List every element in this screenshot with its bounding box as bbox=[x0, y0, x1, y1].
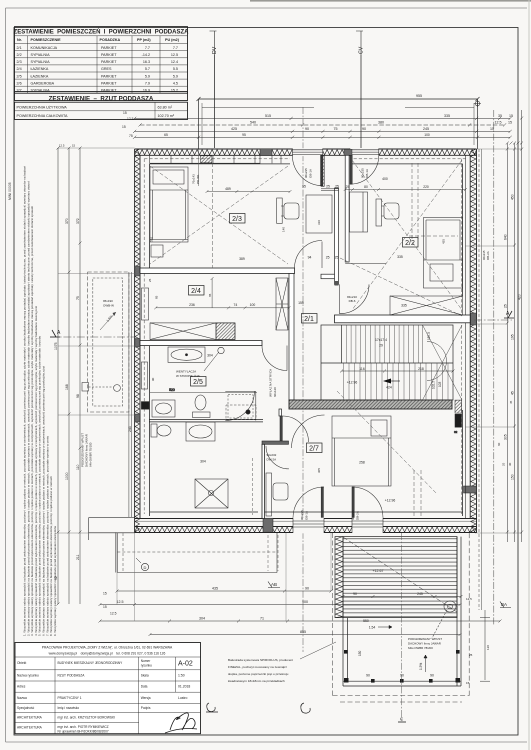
bathtub lower bath bbox=[186, 422, 215, 441]
svg-text:PARKIET: PARKIET bbox=[101, 46, 117, 50]
bottom dim line 3 bbox=[99, 620, 502, 623]
top dimension line 4 bbox=[133, 136, 512, 139]
svg-text:855: 855 bbox=[300, 630, 306, 634]
bottom exterior wall bbox=[135, 519, 477, 533]
svg-text:102.5: 102.5 bbox=[432, 381, 436, 389]
svg-text:150: 150 bbox=[358, 650, 362, 656]
svg-text:Specjalność: Specjalność bbox=[17, 706, 35, 710]
terrace drain label bbox=[408, 637, 442, 650]
svg-text:12.5: 12.5 bbox=[127, 117, 134, 121]
svg-text:95: 95 bbox=[242, 133, 246, 137]
svg-text:75: 75 bbox=[129, 134, 133, 138]
bath counter line bbox=[149, 419, 263, 422]
drain label vertical bbox=[81, 433, 93, 467]
svg-text:45: 45 bbox=[511, 391, 515, 395]
svg-text:2/7: 2/7 bbox=[309, 446, 319, 453]
dim 955 bbox=[197, 94, 480, 101]
wardrobe in niche bbox=[306, 195, 332, 233]
stair dimension line bbox=[340, 370, 455, 373]
bathtub room 2/5 bbox=[168, 347, 205, 362]
right dimension lines bbox=[506, 110, 523, 542]
svg-text:372: 372 bbox=[76, 218, 80, 224]
svg-text:OB-2A: OB-2A bbox=[486, 251, 490, 260]
svg-text:640: 640 bbox=[503, 234, 507, 240]
svg-text:GRES: GRES bbox=[101, 67, 112, 71]
shaft wall right (corridor wall) bbox=[321, 188, 339, 286]
svg-text:DV: DV bbox=[212, 46, 218, 54]
extension lines right bbox=[465, 149, 522, 533]
stair direction arrow bbox=[383, 379, 391, 384]
svg-text:450: 450 bbox=[511, 194, 515, 200]
svg-text:Data: Data bbox=[141, 685, 148, 689]
tick cluster top right wall bbox=[506, 142, 523, 145]
terrace door 2 swing bbox=[352, 487, 383, 518]
svg-text:GARDEROBA: GARDEROBA bbox=[31, 81, 55, 85]
threshold line room 2/2 entry bbox=[345, 263, 386, 265]
svg-text:2/6: 2/6 bbox=[17, 81, 22, 85]
svg-text:245: 245 bbox=[423, 127, 429, 131]
dim ticks right of terrace bbox=[480, 610, 490, 681]
svg-text:2/4: 2/4 bbox=[17, 67, 22, 71]
svg-text:15: 15 bbox=[508, 121, 512, 125]
door corridor to stair hall bbox=[340, 284, 370, 313]
CV gutter marker bbox=[356, 31, 365, 148]
terrace door opening 2 (bottom) bbox=[352, 518, 383, 534]
svg-text:90: 90 bbox=[305, 127, 309, 131]
svg-text:29: 29 bbox=[379, 344, 383, 348]
svg-text:489: 489 bbox=[225, 187, 231, 191]
svg-text:7.9: 7.9 bbox=[145, 81, 150, 85]
svg-text:304: 304 bbox=[199, 617, 205, 621]
section line A-A stubs bbox=[50, 320, 512, 337]
svg-text:425: 425 bbox=[442, 239, 446, 244]
svg-text:15: 15 bbox=[72, 144, 76, 148]
section marker A left bbox=[50, 330, 61, 337]
svg-text:17x17.4: 17x17.4 bbox=[375, 338, 387, 342]
washbasin room 2/5 bbox=[152, 400, 175, 417]
svg-text:94: 94 bbox=[308, 256, 312, 260]
svg-text:64H-OWBR 78/200: 64H-OWBR 78/200 bbox=[408, 646, 433, 650]
left dim texts rotated bbox=[54, 218, 132, 580]
svg-text:71: 71 bbox=[260, 617, 264, 621]
right wall inner finish line bbox=[465, 155, 467, 518]
svg-text:5.7: 5.7 bbox=[145, 67, 150, 71]
section marker A right bbox=[504, 311, 514, 318]
svg-text:12.5: 12.5 bbox=[495, 121, 502, 125]
svg-text:PARKIET: PARKIET bbox=[101, 74, 117, 78]
svg-text:15: 15 bbox=[103, 592, 107, 596]
terrace door opening 1 (bottom) bbox=[293, 518, 324, 534]
svg-text:140: 140 bbox=[282, 227, 286, 232]
stair hall / room 2/7 wall (H3) bbox=[289, 400, 452, 409]
garage roof rectangle bottom-left bbox=[117, 533, 277, 573]
svg-text:550: 550 bbox=[363, 619, 369, 623]
section line through plan (vertical) bbox=[302, 107, 304, 652]
knee-wall dashed inner offsets bbox=[144, 159, 466, 514]
svg-text:2/3: 2/3 bbox=[232, 216, 242, 223]
svg-text:335: 335 bbox=[397, 255, 403, 259]
terrace drain bbox=[432, 601, 456, 638]
svg-text:Balustrada systemowa SPIROFLUS: Balustrada systemowa SPIROFLUS, producen… bbox=[228, 658, 293, 662]
svg-text:12.5: 12.5 bbox=[466, 597, 472, 601]
svg-text:15: 15 bbox=[466, 681, 470, 685]
svg-text:Adres: Adres bbox=[17, 685, 26, 689]
svg-text:900: 900 bbox=[302, 600, 308, 604]
svg-text:Obiekt: Obiekt bbox=[17, 661, 26, 665]
svg-text:12.5: 12.5 bbox=[59, 144, 65, 148]
svg-text:304: 304 bbox=[200, 460, 206, 464]
svg-text:www.domyzwizja.pl domy@domy: www.domyzwizja.pl domy@domyzwizja.pl tel… bbox=[49, 652, 166, 656]
left exterior wall bbox=[135, 149, 140, 533]
scan edge artifact top bbox=[250, 0, 531, 2]
title block grid bbox=[15, 657, 201, 734]
svg-text:25: 25 bbox=[326, 185, 330, 189]
table rows bbox=[17, 46, 179, 93]
svg-text:75: 75 bbox=[76, 296, 80, 300]
title values bbox=[58, 661, 124, 734]
svg-text:305: 305 bbox=[317, 468, 321, 473]
dark pier in bottom wall bbox=[263, 518, 273, 532]
svg-text:25: 25 bbox=[502, 462, 506, 466]
svg-text:100: 100 bbox=[250, 303, 256, 307]
terrace deck bbox=[343, 537, 457, 618]
svg-text:7.7: 7.7 bbox=[145, 46, 150, 50]
svg-text:4.5: 4.5 bbox=[173, 81, 178, 85]
svg-text:Nr.: Nr. bbox=[17, 38, 22, 42]
small left bottom texts bbox=[103, 592, 117, 616]
roof slope dashed diagonal 2/7 bbox=[337, 391, 437, 518]
svg-text:PARKIET: PARKIET bbox=[101, 53, 117, 57]
svg-text:85: 85 bbox=[155, 295, 159, 299]
svg-text:25: 25 bbox=[469, 653, 473, 657]
balcony door opening 2 (top) bbox=[350, 148, 379, 156]
svg-text:95: 95 bbox=[302, 185, 306, 189]
svg-text:90: 90 bbox=[430, 673, 434, 677]
svg-text:POMIESZCZENIE: POMIESZCZENIE bbox=[31, 38, 62, 42]
svg-text:95x190: 95x190 bbox=[103, 299, 113, 303]
svg-text:16.3: 16.3 bbox=[143, 60, 150, 64]
svg-text:Podpis: Podpis bbox=[141, 706, 151, 710]
bed room 2/7 bbox=[332, 416, 391, 486]
svg-text:120: 120 bbox=[486, 645, 490, 650]
svg-text:16.9: 16.9 bbox=[143, 89, 150, 93]
svg-text:80: 80 bbox=[364, 185, 368, 189]
balcony door 2 swing bbox=[350, 155, 379, 184]
svg-text:25: 25 bbox=[503, 304, 507, 308]
small marker glyph near block bbox=[206, 703, 218, 712]
shower tray low (X + drain) bbox=[195, 479, 228, 508]
svg-text:310: 310 bbox=[317, 220, 321, 225]
svg-text:+12.96: +12.96 bbox=[347, 380, 358, 384]
svg-text:2/2: 2/2 bbox=[17, 53, 22, 57]
svg-text:102.70 m²: 102.70 m² bbox=[158, 114, 175, 118]
wall above stairs (room 2/2 bottom wall) bbox=[335, 315, 471, 323]
roof drain left bbox=[82, 383, 120, 392]
dim 520 bbox=[150, 388, 257, 393]
svg-text:15: 15 bbox=[103, 605, 107, 609]
dashed drop lines below bottom wall bbox=[268, 535, 278, 571]
left dimension line 2 bbox=[68, 147, 71, 605]
svg-text:2/4: 2/4 bbox=[191, 288, 201, 295]
svg-text:335: 335 bbox=[444, 114, 450, 118]
svg-text:25: 25 bbox=[346, 185, 350, 189]
svg-text:2/3: 2/3 bbox=[17, 60, 22, 64]
svg-text:rysunku: rysunku bbox=[141, 664, 152, 668]
small dims right bbox=[482, 250, 513, 466]
svg-text:15: 15 bbox=[123, 111, 127, 115]
svg-text:DB-2A: DB-2A bbox=[355, 511, 359, 520]
svg-text:ŁAZIENKA: ŁAZIENKA bbox=[31, 74, 49, 78]
BA marker right bottom bbox=[500, 602, 511, 608]
room label 2/4 bbox=[189, 286, 205, 296]
door to room 2/5 bbox=[262, 346, 287, 371]
svg-text:2/5: 2/5 bbox=[17, 74, 22, 78]
balustrade note text bbox=[228, 658, 293, 683]
radiator left wall 2/4 bbox=[142, 288, 149, 320]
extension verticals down from plan bbox=[117, 533, 331, 621]
svg-text:PP (m2): PP (m2) bbox=[137, 38, 151, 42]
svg-text:110: 110 bbox=[76, 464, 80, 470]
svg-text:420: 420 bbox=[518, 294, 522, 300]
horizontal extension lines from plan to left dims bbox=[58, 148, 140, 533]
svg-text:540: 540 bbox=[250, 121, 256, 125]
balcony (roof terrace) outline above plan bbox=[199, 99, 478, 149]
room label 2/2 bbox=[403, 238, 419, 248]
svg-text:195: 195 bbox=[511, 334, 515, 340]
table inner grid bbox=[15, 36, 188, 120]
closet strip along top wall of room 2/3 bbox=[150, 155, 281, 163]
roof slope dashed diagonals 2/3 bbox=[150, 166, 288, 264]
svg-text:75: 75 bbox=[334, 127, 338, 131]
svg-text:90: 90 bbox=[366, 673, 370, 677]
svg-text:5.9: 5.9 bbox=[145, 74, 150, 78]
svg-text:CV: CV bbox=[359, 46, 365, 54]
railing posts bbox=[344, 650, 460, 683]
lower marker glyph bbox=[301, 703, 310, 713]
knee-wall solid lines (1m line) bbox=[150, 164, 463, 516]
svg-text:ARCHITEKTURA: ARCHITEKTURA bbox=[17, 726, 43, 730]
svg-text:74: 74 bbox=[234, 303, 238, 307]
svg-text:515: 515 bbox=[265, 114, 271, 118]
svg-text:OB-1A: OB-1A bbox=[308, 169, 312, 178]
svg-text:90: 90 bbox=[353, 592, 357, 596]
room label 2/1 bbox=[302, 314, 318, 324]
marked cabinet cell bbox=[201, 156, 212, 163]
svg-text:5.5: 5.5 bbox=[173, 67, 178, 71]
svg-text:W STROPIE ∅16: W STROPIE ∅16 bbox=[176, 374, 200, 378]
C section marker below terrace bbox=[398, 533, 406, 722]
svg-text:60x120: 60x120 bbox=[273, 387, 277, 397]
svg-text:65: 65 bbox=[164, 133, 168, 137]
lower roof bottom-left block bbox=[89, 518, 135, 573]
svg-text:32: 32 bbox=[454, 430, 458, 434]
bed room 2/3 bbox=[150, 167, 188, 242]
toilet lower bath bbox=[151, 424, 171, 437]
door corridor to bath zone bbox=[292, 415, 325, 448]
svg-text:12.5: 12.5 bbox=[110, 612, 117, 616]
chimney block room 2/7 bbox=[454, 400, 462, 434]
svg-text:PD-W1: PD-W1 bbox=[196, 174, 200, 184]
table frame bbox=[15, 27, 188, 120]
right exterior wall bbox=[470, 149, 476, 533]
scan edge artifact right bbox=[529, 0, 530, 750]
svg-text:PU (m2): PU (m2) bbox=[165, 38, 180, 42]
svg-text:65: 65 bbox=[208, 293, 212, 297]
svg-text:7.7: 7.7 bbox=[173, 46, 178, 50]
slope arrow vertical bbox=[419, 655, 427, 672]
svg-text:ZESTAWIENIE – RZUT PODDASZA: ZESTAWIENIE – RZUT PODDASZA bbox=[49, 95, 154, 102]
svg-text:Nazwa rysunku: Nazwa rysunku bbox=[17, 674, 39, 678]
svg-text:92: 92 bbox=[54, 576, 58, 580]
svg-text:mgr inż. arch. PIOTR RYMKIEWIC: mgr inż. arch. PIOTR RYMKIEWICZ bbox=[58, 725, 109, 729]
desk room 2/2 bbox=[376, 199, 399, 226]
DV gutter marker bbox=[210, 31, 219, 148]
svg-text:Skala: Skala bbox=[141, 674, 149, 678]
bath dividing wall (H2b) bbox=[140, 341, 262, 346]
balcony door 1 swing bbox=[292, 155, 322, 185]
svg-text:SYPIALNIA: SYPIALNIA bbox=[31, 53, 51, 57]
roof dash lines room 2/2 bbox=[409, 163, 458, 240]
svg-text:PRACOWNIA PROJEKTOWA „DOMY Z W: PRACOWNIA PROJEKTOWA „DOMY Z WIZJĄ”, ul.… bbox=[42, 646, 173, 650]
svg-text:MINI 00005: MINI 00005 bbox=[8, 182, 12, 200]
svg-text:POSADZKA: POSADZKA bbox=[100, 38, 121, 42]
svg-text:-14.2: -14.2 bbox=[142, 53, 150, 57]
svg-text:389: 389 bbox=[239, 257, 245, 261]
svg-text:435: 435 bbox=[212, 587, 218, 591]
svg-text:POWIERZCHNIA UŻYTKOWA: POWIERZCHNIA UŻYTKOWA bbox=[17, 104, 68, 109]
svg-text:+12.96: +12.96 bbox=[385, 499, 396, 503]
dark pier in top wall bbox=[260, 149, 272, 156]
svg-text:OB-1A: OB-1A bbox=[304, 511, 308, 520]
svg-text:Numer: Numer bbox=[141, 659, 152, 663]
svg-text:25: 25 bbox=[335, 185, 339, 189]
svg-text:OB-1A: OB-1A bbox=[365, 169, 369, 178]
attic hatch dashed rect bbox=[226, 405, 256, 420]
svg-text:100: 100 bbox=[424, 133, 430, 137]
svg-text:30: 30 bbox=[508, 462, 512, 466]
svg-text:400: 400 bbox=[382, 177, 388, 181]
D marker bbox=[136, 558, 149, 571]
bath / room 2/7 wall (W7 lower) bbox=[262, 444, 265, 518]
staircase outline bbox=[321, 325, 453, 400]
bed room 2/2 bbox=[424, 218, 463, 289]
svg-text:103: 103 bbox=[438, 381, 442, 387]
roof slope dashed diagonals 2/2 bbox=[352, 160, 462, 310]
nightstand room 2/3 bbox=[151, 245, 163, 257]
svg-text:424: 424 bbox=[386, 386, 392, 390]
svg-text:25: 25 bbox=[148, 278, 152, 282]
svg-text:45: 45 bbox=[509, 400, 513, 404]
svg-text:PARKIET: PARKIET bbox=[101, 89, 117, 93]
svg-text:25: 25 bbox=[335, 256, 339, 260]
svg-text:D: D bbox=[144, 565, 147, 570]
left dimension line 1 bbox=[57, 147, 60, 606]
roof overhang dashed outline around terrace bbox=[333, 533, 470, 702]
svg-text:Imię i nazwisko: Imię i nazwisko bbox=[58, 706, 80, 710]
long cabinet room 2/4 (X) bbox=[150, 323, 235, 340]
svg-text:218: 218 bbox=[418, 367, 424, 371]
svg-text:01.2018: 01.2018 bbox=[178, 685, 190, 689]
door in stub to bath bbox=[266, 446, 289, 469]
svg-text:ŁAZIENKA: ŁAZIENKA bbox=[31, 67, 49, 71]
svg-text:380: 380 bbox=[378, 121, 384, 125]
svg-text:BUDYNEK MIESZKALNY JEDNORODZIN: BUDYNEK MIESZKALNY JEDNORODZINNY bbox=[58, 661, 124, 665]
DV drain dashed continuation bbox=[212, 163, 214, 268]
svg-text:5.9: 5.9 bbox=[173, 74, 178, 78]
svg-text:12.5: 12.5 bbox=[117, 600, 124, 604]
svg-text:90: 90 bbox=[362, 127, 366, 131]
terrace right railing band bbox=[457, 537, 461, 686]
svg-text:305: 305 bbox=[503, 434, 507, 440]
svg-text:DW-2A: DW-2A bbox=[267, 458, 277, 462]
lower roof outline left bbox=[88, 272, 132, 517]
door bath to 2/7: leaf and swing bbox=[280, 416, 309, 442]
room label 2/3 bbox=[230, 214, 246, 224]
stair treads upper flight bbox=[346, 325, 462, 400]
svg-text:211: 211 bbox=[76, 554, 80, 560]
shower with curved front bbox=[225, 391, 256, 420]
svg-text:Wersja: Wersja bbox=[141, 696, 151, 700]
svg-text:90x232: 90x232 bbox=[267, 453, 277, 457]
stair labels bbox=[347, 338, 424, 390]
svg-text:12.4: 12.4 bbox=[171, 60, 178, 64]
svg-text:PRAKTYCZNY 1: PRAKTYCZNY 1 bbox=[58, 696, 82, 700]
svg-text:258: 258 bbox=[359, 461, 365, 465]
svg-text:1075: 1075 bbox=[54, 342, 58, 350]
right dim texts bbox=[503, 194, 521, 480]
svg-text:955: 955 bbox=[416, 94, 422, 98]
dark pier in right wall bbox=[464, 486, 477, 493]
right side terrace dims bbox=[466, 597, 490, 685]
svg-text:ARCHITEKTURA: ARCHITEKTURA bbox=[17, 716, 43, 720]
bath / room 2/7 wall upper stub bbox=[279, 409, 282, 416]
svg-text:15: 15 bbox=[122, 125, 126, 129]
svg-text:RZUT PODDASZA: RZUT PODDASZA bbox=[58, 674, 86, 678]
svg-text:2/1: 2/1 bbox=[17, 46, 22, 50]
inner dims and texts bbox=[200, 177, 407, 503]
svg-text:SYPIALNIA: SYPIALNIA bbox=[31, 89, 51, 93]
bottom dim line 2 bbox=[99, 603, 462, 606]
svg-text:90: 90 bbox=[151, 377, 155, 381]
svg-text:1000: 1000 bbox=[65, 472, 69, 480]
svg-text:kwadratowym 18x18mm na przekła: kwadratowym 18x18mm na przekładkach bbox=[228, 679, 285, 683]
note leader line bbox=[300, 642, 336, 659]
svg-text:116: 116 bbox=[359, 367, 365, 371]
svg-text:OWB-W: OWB-W bbox=[103, 304, 114, 308]
svg-text:370: 370 bbox=[65, 218, 69, 224]
svg-text:ZESTAWIENIE POMIESZCZEŃ I P: ZESTAWIENIE POMIESZCZEŃ I POWIERZCHNI PO… bbox=[14, 27, 190, 35]
svg-text:187.5: 187.5 bbox=[427, 332, 431, 340]
top exterior wall bbox=[135, 149, 477, 155]
bottom dim line 4 bbox=[149, 633, 462, 636]
top dim small left labels bbox=[122, 111, 134, 138]
radiator left wall 2/5 bbox=[142, 362, 148, 389]
column headers bbox=[17, 38, 180, 42]
terrace diagonal bbox=[343, 537, 457, 612]
title block frame bbox=[15, 643, 201, 734]
wardrobe room 2/2 west bbox=[350, 192, 368, 232]
svg-text:236: 236 bbox=[189, 303, 195, 307]
svg-text:336: 336 bbox=[150, 237, 154, 242]
svg-text:Nr uprawnień Bł-PdOKK/86/08/20: Nr uprawnień Bł-PdOKK/86/08/2007 bbox=[58, 730, 109, 734]
wardrobe room 2/2 (X) bbox=[390, 296, 463, 315]
svg-text:Nazwa: Nazwa bbox=[17, 696, 27, 700]
svg-text:15: 15 bbox=[490, 127, 494, 131]
svg-text:PARKIET: PARKIET bbox=[101, 81, 117, 85]
svg-text:64h-OWBR 70/100: 64h-OWBR 70/100 bbox=[89, 442, 93, 467]
dim line room 2/2 top bbox=[344, 188, 467, 191]
svg-text:POWIERZCHNIA CAŁKOWITA: POWIERZCHNIA CAŁKOWITA bbox=[17, 114, 68, 118]
